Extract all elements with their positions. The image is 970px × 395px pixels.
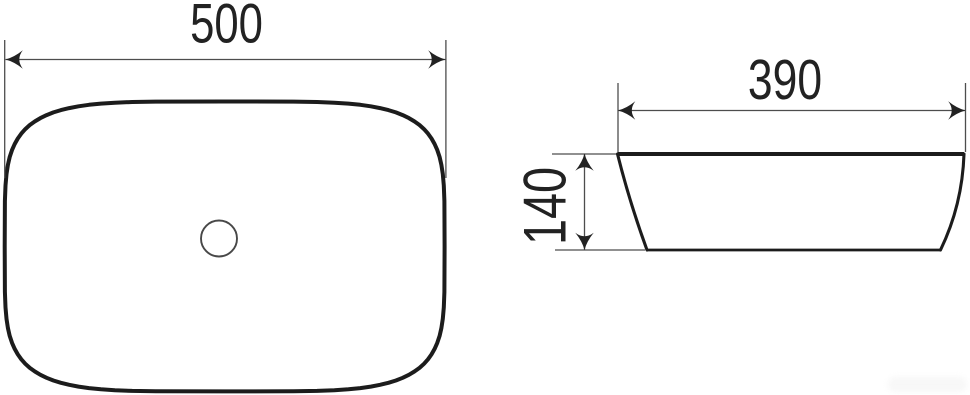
watermark [888, 377, 967, 392]
extension line top (140) [552, 153, 616, 155]
basin side-view rim line [618, 152, 965, 156]
basin side-view bottom edge [647, 249, 941, 252]
dimension line 500 [6, 59, 446, 61]
svg-text:140: 140 [512, 167, 579, 245]
drain circle [201, 221, 237, 257]
extension line left (390) [617, 83, 619, 152]
extension line left (500) [4, 40, 6, 178]
arrowhead 500 right [428, 50, 445, 68]
basin side-view right slope [941, 154, 965, 250]
dimension line 140 [584, 155, 586, 250]
svg-text:390: 390 [748, 48, 822, 112]
basin side-view left slope [618, 154, 648, 250]
basin top-view outline [5, 102, 445, 392]
arrowhead 390 right [948, 101, 965, 119]
extension line bottom (140) [555, 249, 645, 251]
extension line right (500) [445, 40, 447, 178]
svg-text:500: 500 [190, 0, 263, 55]
arrowhead 140 top [575, 154, 593, 171]
extension line right (390) [965, 83, 967, 152]
arrowhead 140 bottom [575, 233, 593, 250]
dimension line 390 [618, 110, 966, 112]
arrowhead 390 left [618, 101, 635, 119]
arrowhead 500 left [6, 50, 23, 68]
